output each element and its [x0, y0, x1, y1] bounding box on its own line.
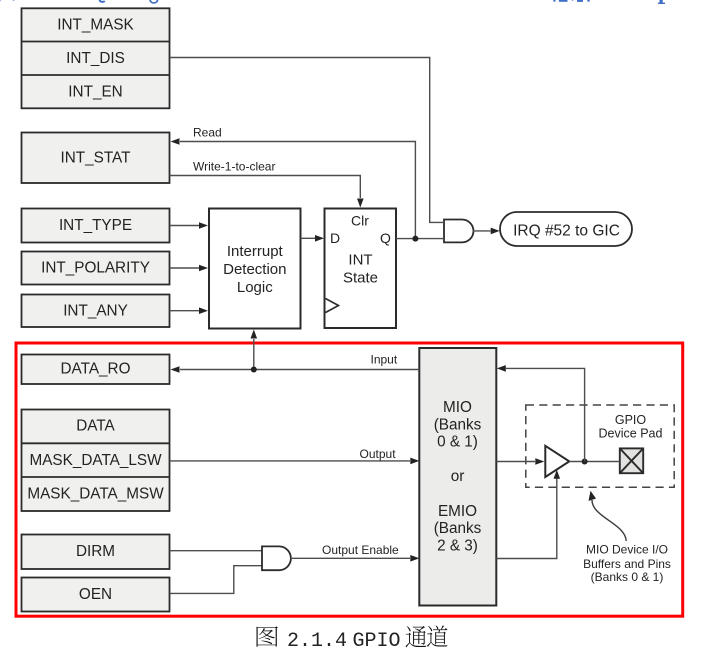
callout curved arrow: [592, 500, 626, 541]
svg-text:EMIO: EMIO: [438, 503, 477, 520]
output buffer triangle: [545, 446, 569, 477]
wire Q to AND: [396, 238, 444, 240]
wire Output (MASK_DATA to MIO): [170, 460, 411, 462]
red highlight rectangle: [16, 343, 683, 616]
svg-text:GPIO: GPIO: [353, 630, 401, 653]
svg-text:2 & 3): 2 & 3): [437, 537, 478, 554]
svg-text:Logic: Logic: [237, 279, 273, 296]
svg-text:(Banks: (Banks: [434, 520, 482, 537]
register box INT_STAT: [22, 133, 170, 184]
wire buffer to pad: [569, 461, 620, 463]
register box DATA / MASK_DATA_LSW / MASK_DATA_MSW group: [22, 410, 170, 512]
svg-text:INT_EN: INT_EN: [68, 84, 122, 101]
svg-text:Device Pad: Device Pad: [599, 427, 663, 441]
svg-text:0 & 1): 0 & 1): [437, 434, 478, 451]
register box DIRM: [22, 535, 170, 570]
svg-text:Buffers and Pins: Buffers and Pins: [583, 557, 671, 571]
AND gate U1 (interrupt out): [444, 220, 473, 243]
svg-text:Output: Output: [360, 447, 397, 461]
wire enable to buffer: [496, 478, 557, 559]
svg-text:MASK_DATA_MSW: MASK_DATA_MSW: [27, 486, 164, 503]
svg-text:D: D: [330, 230, 340, 246]
svg-text:Output Enable: Output Enable: [322, 543, 399, 557]
wire OEN to AND2: [170, 566, 263, 594]
svg-text:MIO: MIO: [443, 399, 472, 416]
wire feedback to IDL bottom: [253, 339, 255, 370]
dashed buffer/pad enclosure: [526, 405, 674, 487]
flip-flop INT State: [325, 209, 397, 329]
svg-text:OEN: OEN: [79, 586, 112, 603]
svg-text:INT_TYPE: INT_TYPE: [59, 217, 132, 234]
IRQ #52 to GIC stadium: [500, 212, 632, 246]
wire DIRM to AND2: [170, 550, 263, 552]
wire AND to IRQ stadium: [473, 230, 491, 232]
wire Write-1-to-clear: [170, 176, 361, 199]
svg-text:DATA_RO: DATA_RO: [61, 361, 131, 378]
flip-flop clock chevron: [326, 299, 339, 313]
node pad junction: [582, 459, 588, 465]
wire Output Enable (AND2 to MIO): [291, 557, 411, 559]
wire INT_TYPE to IDL: [170, 225, 200, 227]
wire MIO to buffer: [496, 461, 535, 463]
svg-text:DIRM: DIRM: [76, 543, 115, 560]
svg-text:MASK_DATA_LSW: MASK_DATA_LSW: [29, 452, 162, 469]
svg-text:INT_POLARITY: INT_POLARITY: [41, 260, 150, 277]
node Input junction: [251, 367, 257, 373]
svg-text:MIO Device I/O: MIO Device I/O: [586, 543, 668, 557]
GPIO device pad symbol: [620, 448, 643, 473]
svg-text:Clr: Clr: [351, 213, 369, 229]
svg-text:Detection: Detection: [223, 261, 286, 278]
register box DATA_RO: [22, 355, 170, 385]
svg-text:INT: INT: [348, 252, 372, 269]
svg-text:2.1.4: 2.1.4: [287, 630, 347, 653]
register box INT_MASK / INT_DIS / INT_EN group: [22, 8, 170, 108]
svg-text:DATA: DATA: [76, 418, 115, 435]
wire INT_POLARITY to IDL: [170, 267, 200, 269]
register box OEN: [22, 578, 170, 612]
wire IDL to D: [301, 237, 316, 239]
AND gate U2 (output enable): [262, 546, 291, 570]
svg-text:INT_ANY: INT_ANY: [63, 303, 128, 320]
svg-text:INT_DIS: INT_DIS: [66, 50, 125, 67]
register box INT_ANY: [22, 295, 170, 328]
block Interrupt Detection Logic: [209, 209, 301, 329]
svg-text:INT_MASK: INT_MASK: [57, 17, 134, 34]
node Q junction: [412, 236, 418, 242]
arrowhead Write-1-to-clear into Clr: [357, 199, 364, 208]
wire pad feedback into MIO: [506, 368, 585, 461]
caption 图 2.1.4 GPIO 通道: [256, 626, 447, 648]
svg-text:Input: Input: [371, 353, 398, 367]
arrowhead Read into INT_STAT: [171, 138, 180, 145]
svg-text:INT_STAT: INT_STAT: [61, 149, 131, 166]
svg-text:IRQ #52 to GIC: IRQ #52 to GIC: [513, 222, 620, 239]
svg-text:GPIO: GPIO: [615, 413, 647, 427]
svg-text:Q: Q: [380, 230, 391, 246]
svg-text:(Banks: (Banks: [434, 416, 482, 433]
cropped blue text fragments at top: [0, 0, 665, 4]
svg-text:Write-1-to-clear: Write-1-to-clear: [193, 159, 275, 173]
svg-text:or: or: [451, 468, 465, 485]
svg-text:Interrupt: Interrupt: [227, 243, 284, 260]
wire Read (Q node up to INT_STAT): [180, 142, 415, 239]
svg-text:State: State: [343, 270, 378, 287]
wire Input (MIO to DATA_RO): [180, 369, 419, 371]
register box INT_POLARITY: [22, 252, 170, 285]
register box INT_TYPE: [22, 209, 170, 243]
MIO / EMIO block: [419, 348, 496, 606]
svg-text:Read: Read: [193, 126, 222, 140]
wire INT_DIS to AND: [170, 58, 445, 223]
svg-text:(Banks 0 & 1): (Banks 0 & 1): [591, 570, 664, 584]
wire INT_ANY to IDL: [170, 310, 200, 312]
